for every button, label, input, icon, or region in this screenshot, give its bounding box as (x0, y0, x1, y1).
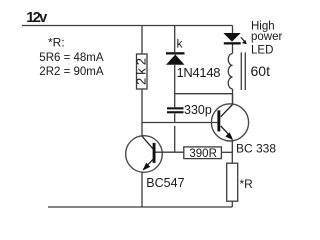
capacitor C1 330p (167, 107, 184, 113)
wire node A to Q2 base (142, 122, 217, 124)
resistor R3 *R (227, 163, 238, 201)
wire R2 to Q2 emitter / R3 top (node C) (221, 151, 232, 153)
svg-text:k: k (177, 37, 184, 51)
svg-text:power: power (251, 31, 282, 43)
label k (cathode of D1) (177, 37, 184, 51)
wire D1 anode down to C1 (node B) (174, 65, 176, 108)
wire Q2 collector up to node B link (232, 94, 234, 105)
wire rail to R1 top (141, 26, 143, 55)
wire node B to inductor bottom / Q2 collector (175, 93, 233, 95)
label BC 338 (236, 142, 276, 156)
svg-text:2R2 = 90mA: 2R2 = 90mA (39, 66, 104, 78)
svg-text:5R6 = 48mA: 5R6 = 48mA (39, 52, 104, 64)
transistor Q1 BC547 (126, 136, 163, 173)
svg-text:LED: LED (251, 45, 273, 57)
inductor L1 60t winding (228, 54, 232, 89)
svg-text:12v: 12v (26, 9, 48, 26)
inductor core bars (241, 52, 245, 90)
wire Q2 emitter down to node C and R3 top (231, 141, 233, 163)
svg-text:1N4148: 1N4148 (177, 65, 221, 80)
ground rail (bottom) (48, 206, 232, 208)
wire R1 bottom to Q1 collector (node A) (141, 89, 143, 136)
wire C1 bottom toward Q1 base (hops over Q2 base line) (174, 113, 176, 152)
LED D2 high power (223, 33, 240, 45)
label BC547 (146, 176, 184, 190)
svg-text:*R: *R (240, 177, 254, 191)
wire rail corner down to LED anode (232, 26, 234, 34)
wire R3 bottom to ground rail (231, 201, 233, 207)
wire rail to D1 cathode (174, 26, 176, 53)
label 12v supply (26, 9, 48, 26)
svg-text:*R:: *R: (48, 36, 65, 50)
note text 5R6 = 48mA (39, 52, 104, 64)
label High power LED (251, 21, 282, 57)
wire Q1 base to R2 (156, 151, 184, 153)
value label 1N4148 (177, 65, 221, 80)
wire L1 bottom to Q2 collector (232, 89, 234, 105)
resistor R2 390R (184, 147, 222, 160)
svg-text:330p: 330p (184, 103, 212, 117)
svg-text:BC 338: BC 338 (236, 142, 276, 156)
value label 60t (251, 63, 271, 79)
note text 2R2 = 90mA (39, 66, 104, 78)
wire LED cathode to L1 top (232, 45, 234, 54)
transistor Q2 BC338 (211, 104, 248, 141)
svg-text:BC547: BC547 (146, 176, 184, 190)
power rail 12V (top) (22, 25, 233, 27)
note text *R: (48, 36, 65, 50)
svg-text:390R: 390R (189, 148, 217, 160)
diode D1 1N4148 (166, 52, 185, 65)
value label *R (240, 177, 254, 191)
svg-text:60t: 60t (251, 63, 271, 79)
svg-text:2k2: 2k2 (133, 58, 148, 85)
value label 330p (184, 103, 212, 117)
resistor R1 2k2 (133, 54, 148, 89)
wire Q1 emitter to ground rail (141, 172, 143, 207)
LED emission arrow (241, 37, 247, 44)
